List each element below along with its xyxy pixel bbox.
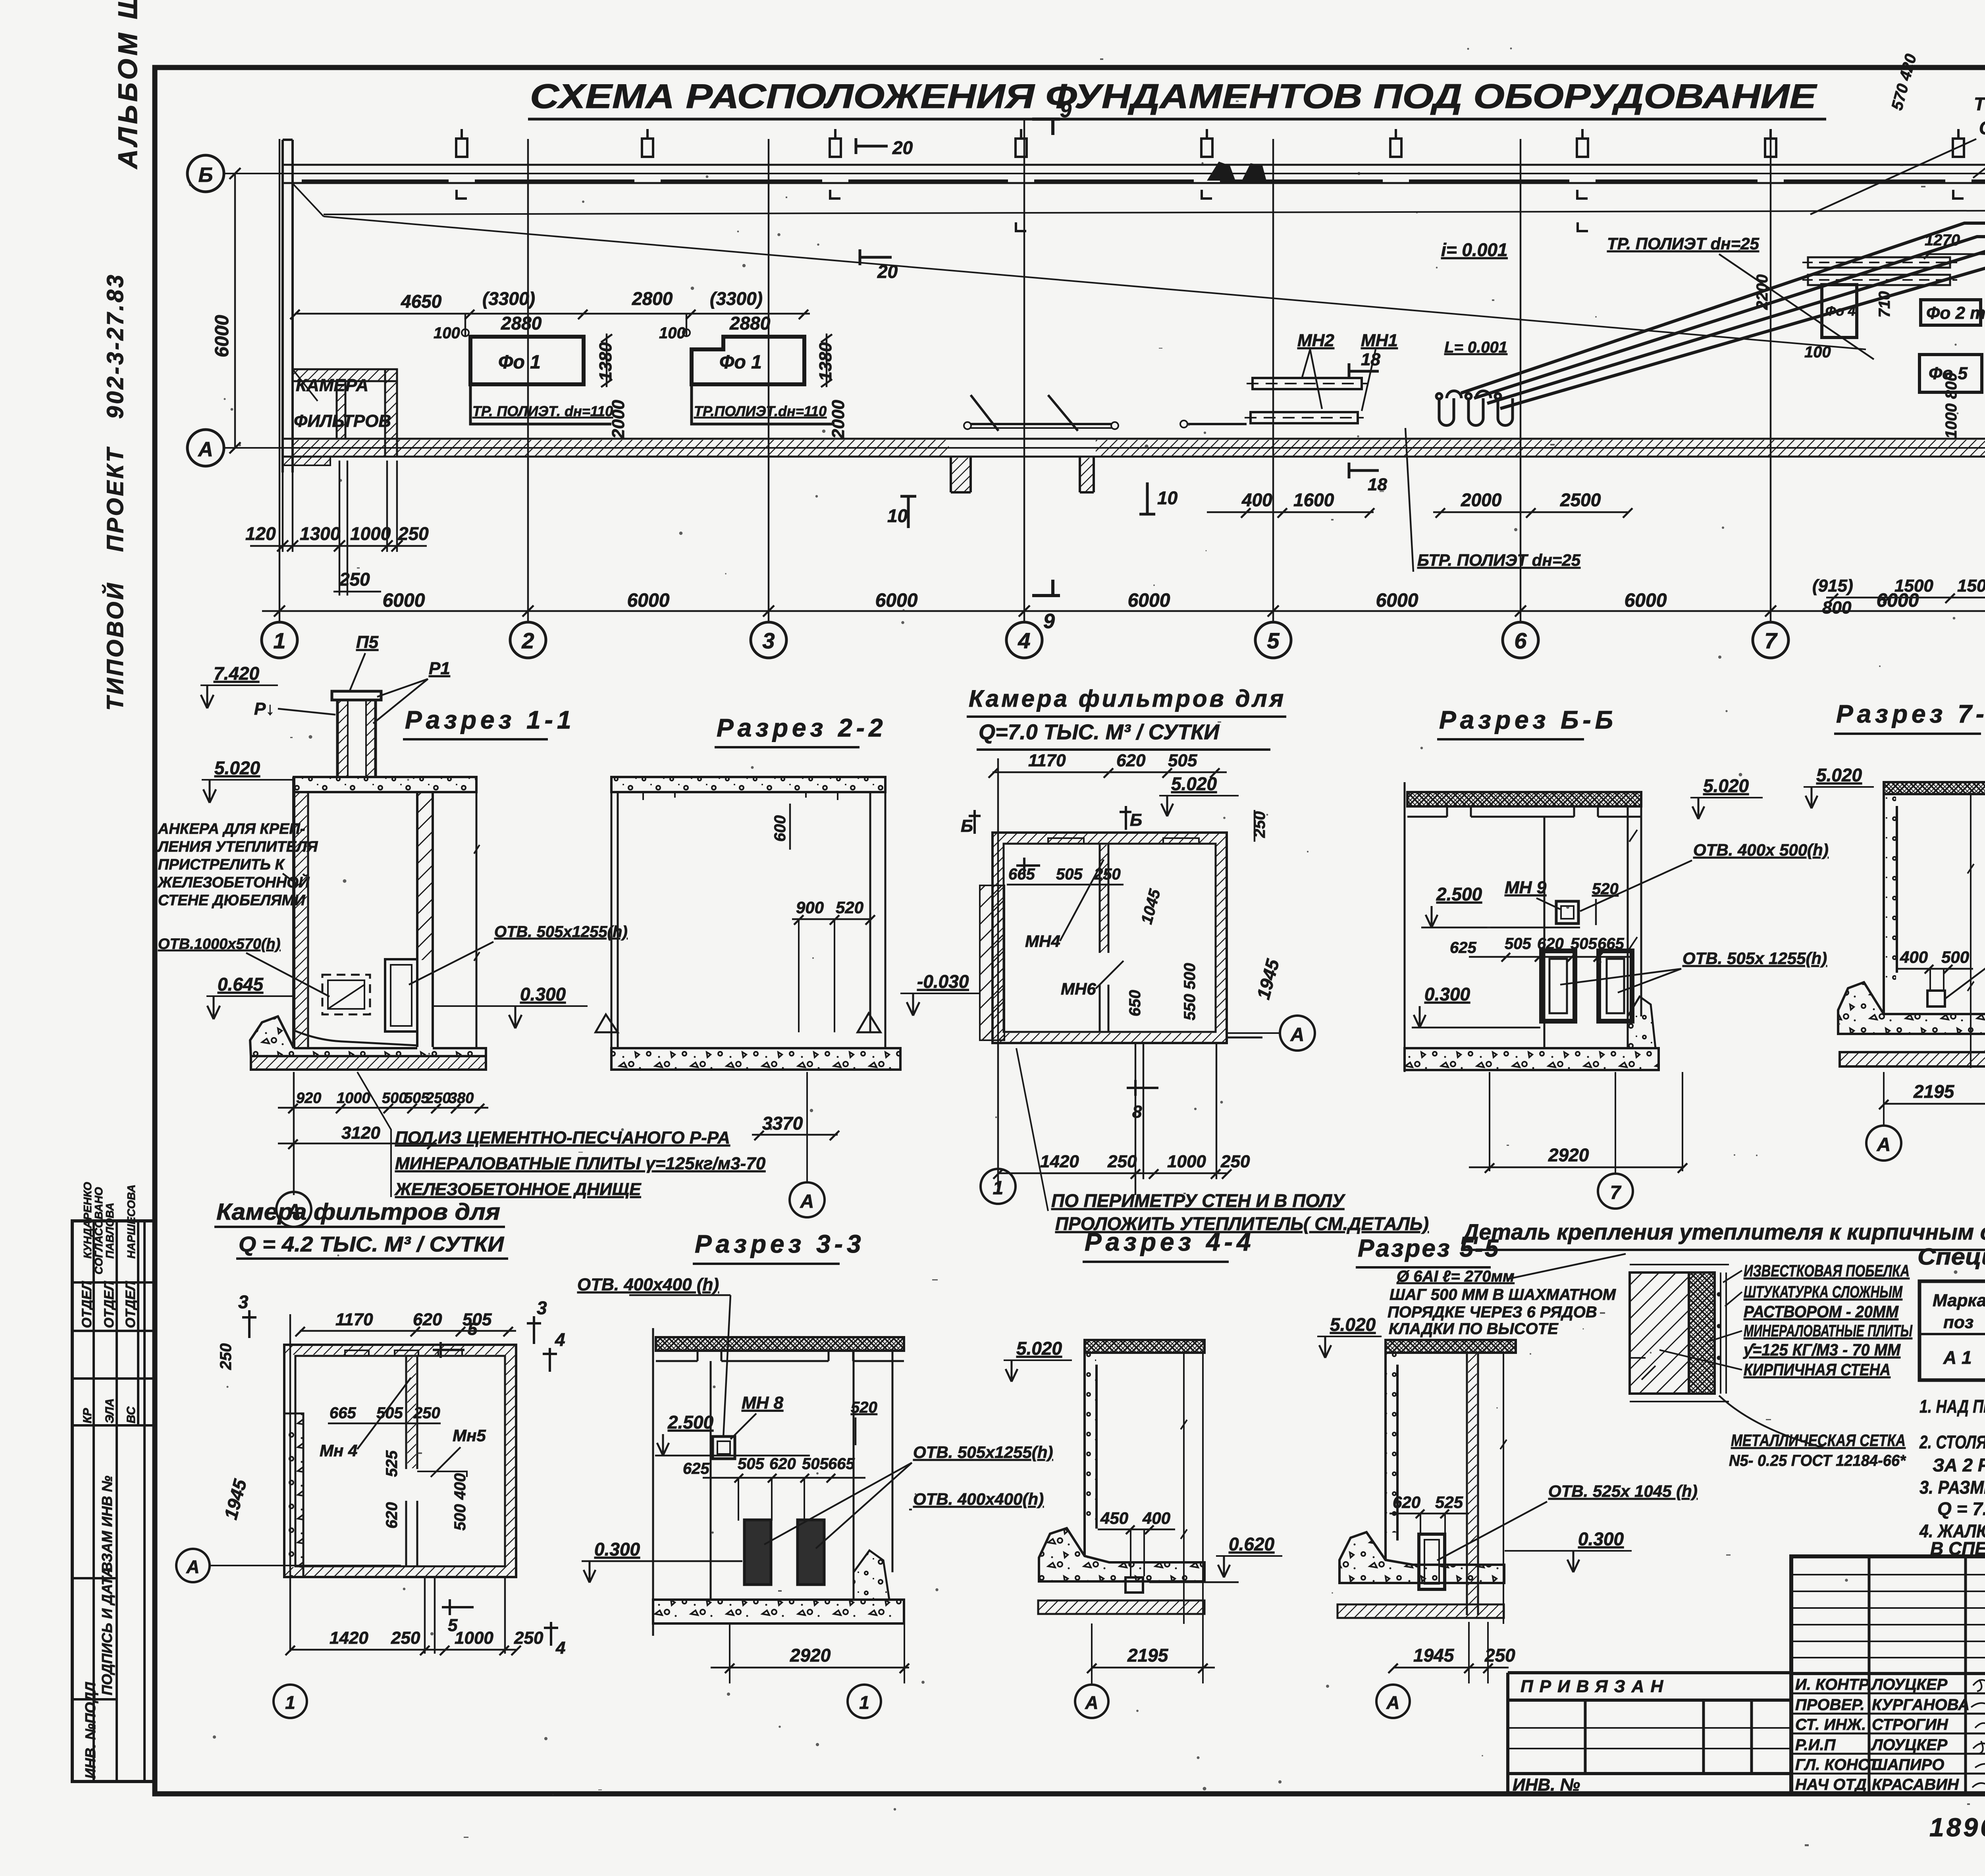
svg-text:А: А	[800, 1191, 814, 1212]
svg-text:1000 800: 1000 800	[1943, 372, 1960, 439]
svg-text:100: 100	[1804, 343, 1831, 361]
svg-text:6000: 6000	[212, 315, 233, 357]
svg-text:А 1: А 1	[1943, 1347, 1972, 1368]
spec table grid	[1919, 1281, 1985, 1380]
svg-text:1300: 1300	[300, 523, 341, 544]
svg-text:1000: 1000	[337, 1090, 370, 1107]
left vertical dim 6000	[229, 168, 241, 453]
svg-text:7: 7	[1610, 1182, 1622, 1203]
svg-text:2000: 2000	[1461, 490, 1502, 510]
svg-text:1270: 1270	[1925, 231, 1960, 249]
section mark 9-9 top and bottom	[1032, 99, 1072, 633]
svg-text:20: 20	[877, 261, 898, 282]
svg-text:ВЗАМ ИНВ №: ВЗАМ ИНВ №	[99, 1476, 115, 1572]
axis А камера7	[1227, 1016, 1315, 1051]
Разрез 4-4 drawing	[1038, 1340, 1204, 1624]
svg-text:6000: 6000	[1625, 590, 1667, 611]
svg-text:Б: Б	[198, 164, 213, 187]
Разрез 5-5 drawing	[1337, 1340, 1516, 1624]
axis Б	[187, 155, 1985, 192]
svg-text:Мн5: Мн5	[453, 1426, 486, 1445]
axis А	[187, 430, 1985, 466]
axis circle А разрез 2-2	[790, 1072, 825, 1217]
svg-text:ОТВ. 505х 1255(h): ОТВ. 505х 1255(h)	[1682, 949, 1827, 968]
foundation Фо1 #2	[683, 329, 834, 424]
Отв 1000х570 label	[158, 936, 330, 997]
Камера фильтров 7.0 title	[967, 685, 1286, 750]
svg-text:БТР. ПОЛИЭТ dн=25: БТР. ПОЛИЭТ dн=25	[1417, 551, 1581, 569]
slope labels	[1441, 234, 1874, 359]
svg-text:ЖЕЛЕЗОБЕТОННОЕ ДНИЩЕ: ЖЕЛЕЗОБЕТОННОЕ ДНИЩЕ	[394, 1180, 642, 1199]
svg-text:ПРИВЯЗАН: ПРИВЯЗАН	[1521, 1677, 1669, 1696]
foundation Фо4	[1822, 285, 1857, 337]
Разрез 6-6 levels and dims	[1412, 884, 1687, 1173]
svg-text:МИНЕРАЛОВАТНЫЕ ПЛИТЫ: МИНЕРАЛОВАТНЫЕ ПЛИТЫ	[1744, 1321, 1913, 1340]
svg-text:Фо 2 т: Фо 2 т	[1926, 303, 1985, 323]
svg-text:ОТДЕЛ: ОТДЕЛ	[102, 1281, 117, 1328]
svg-text:0.300: 0.300	[520, 984, 566, 1005]
опора text	[1974, 70, 1985, 138]
камера 4.2 labels	[220, 1378, 486, 1531]
камера 7.0 bottom dims	[993, 1044, 1231, 1195]
svg-text:ЛЕНИЯ УТЕПЛИТЕЛЯ: ЛЕНИЯ УТЕПЛИТЕЛЯ	[157, 839, 318, 855]
svg-text:2: 2	[521, 628, 534, 653]
signature squiggles	[1971, 1679, 1985, 1789]
svg-text:505: 505	[802, 1455, 829, 1473]
svg-text:А: А	[1386, 1692, 1399, 1713]
level 5.020 right of 6-6	[1690, 775, 1763, 819]
svg-text:9: 9	[1060, 99, 1072, 122]
svg-text:120: 120	[245, 523, 276, 544]
svg-text:Разрез 1-1: Разрез 1-1	[405, 706, 575, 734]
Камера 4.2 plan box	[284, 1345, 516, 1577]
svg-text:НАРШЕСОВА: НАРШЕСОВА	[125, 1184, 137, 1259]
svg-text:ШТУКАТУРКА СЛОЖНЫМ: ШТУКАТУРКА СЛОЖНЫМ	[1744, 1282, 1903, 1301]
svg-text:505: 505	[1168, 751, 1197, 770]
svg-text:10: 10	[887, 505, 908, 526]
Разрез 7-7 drawing	[1838, 782, 1985, 1068]
svg-text:18: 18	[1361, 350, 1380, 369]
svg-text:3. РАЗМЕРЫ В СКОБКАХ ДАНЫ: 3. РАЗМЕРЫ В СКОБКАХ ДАНЫ ДЛЯ ПРОИЗВОДИТ…	[1919, 1477, 1985, 1498]
svg-text:800: 800	[1822, 598, 1852, 617]
svg-text:1945: 1945	[1413, 1645, 1455, 1666]
svg-text:0.300: 0.300	[594, 1539, 640, 1560]
svg-text:250: 250	[398, 523, 429, 544]
svg-text:1: 1	[273, 628, 285, 653]
пол из цементно... notes	[394, 1128, 766, 1199]
grid circles 1-10	[262, 622, 1985, 658]
foundation Фо2т	[1921, 300, 1985, 325]
svg-text:650: 650	[1126, 990, 1144, 1016]
level 5.020 (разрез 1-1)	[202, 758, 294, 803]
svg-text:Мн 4: Мн 4	[320, 1441, 357, 1460]
Отв 400х400 label top	[577, 1275, 730, 1437]
svg-text:5.020: 5.020	[1816, 765, 1862, 785]
svg-text:5: 5	[1267, 628, 1280, 653]
svg-text:ОТВ. 400х400(h): ОТВ. 400х400(h)	[913, 1490, 1044, 1508]
svg-text:0.645: 0.645	[218, 974, 264, 995]
svg-text:Б: Б	[1130, 810, 1142, 830]
svg-text:250: 250	[1484, 1645, 1515, 1666]
svg-text:(3300): (3300)	[482, 288, 535, 309]
Разрез 4-4 dims	[1087, 1509, 1282, 1683]
level 5.020 (7-7)	[1804, 765, 1874, 808]
svg-text:100: 100	[659, 324, 686, 342]
svg-text:620: 620	[413, 1310, 442, 1329]
Разрез 1-1 title	[403, 706, 575, 739]
level 5.020 (5-5)	[1317, 1314, 1382, 1358]
svg-text:П5: П5	[356, 632, 379, 652]
svg-text:520: 520	[851, 1399, 877, 1416]
svg-text:7: 7	[1764, 628, 1778, 653]
отв labels разрез 6-6	[1560, 841, 1829, 993]
section marks 20	[856, 137, 913, 282]
svg-text:5.020: 5.020	[1171, 773, 1217, 794]
svg-text:2195: 2195	[1913, 1081, 1955, 1102]
svg-text:550 500: 550 500	[1181, 963, 1199, 1020]
Разрез 1-1 footing	[250, 1016, 486, 1070]
svg-text:6000: 6000	[875, 590, 918, 611]
svg-text:ПРОЕКТ: ПРОЕКТ	[102, 446, 128, 552]
svg-text:620: 620	[1537, 935, 1564, 952]
svg-text:5.020: 5.020	[1016, 1338, 1062, 1359]
svg-text:Разрез 3-3: Разрез 3-3	[695, 1230, 865, 1258]
svg-text:А: А	[186, 1556, 199, 1577]
svg-text:ИНВ. №ПОДЛ: ИНВ. №ПОДЛ	[82, 1681, 98, 1779]
3 section marks	[217, 1292, 547, 1370]
svg-text:250: 250	[339, 569, 370, 590]
svg-text:665: 665	[828, 1455, 855, 1473]
dims 400 1600 18 / 2000 2500	[1207, 508, 1632, 518]
металлическая сетка	[1729, 1431, 1906, 1469]
svg-text:ОТВ. 400х 500(h): ОТВ. 400х 500(h)	[1693, 841, 1829, 859]
level -0.030	[900, 971, 981, 1016]
svg-text:505: 505	[1571, 935, 1597, 952]
svg-text:1. НАД ПРОЕМАМИ В КИРПИЧНЫХ: 1. НАД ПРОЕМАМИ В КИРПИЧНЫХ СТЕНАХ ВЫПОЛ…	[1919, 1396, 1985, 1417]
Разрез 3-3 title	[693, 1230, 865, 1264]
Привязан table	[1508, 1673, 1791, 1794]
svg-text:ОТВ. 505х1255(h): ОТВ. 505х1255(h)	[913, 1443, 1053, 1461]
Разрез 1-1 chimney	[332, 691, 381, 777]
level 5.020 (4-4)	[1004, 1338, 1072, 1382]
svg-text:ФИЛЬТРОВ: ФИЛЬТРОВ	[294, 411, 391, 431]
svg-text:2200: 2200	[1754, 274, 1771, 310]
Деталь drawing	[1630, 1265, 1729, 1402]
svg-text:6000: 6000	[1376, 590, 1418, 611]
svg-text:1: 1	[859, 1692, 869, 1713]
svg-text:250: 250	[391, 1628, 420, 1648]
svg-text:250: 250	[1220, 1152, 1250, 1171]
left end wall	[283, 140, 293, 472]
svg-text:КЛАДКИ ПО ВЫСОТЕ: КЛАДКИ ПО ВЫСОТЕ	[1389, 1320, 1559, 1338]
Отв 505х1255 label	[409, 923, 628, 985]
Разрез 7-7 title	[1834, 700, 1985, 734]
svg-text:6000: 6000	[383, 590, 425, 611]
svg-text:2920: 2920	[790, 1645, 831, 1666]
svg-text:(3300): (3300)	[710, 288, 763, 309]
svg-text:А: А	[1290, 1024, 1305, 1045]
svg-text:902-3-27.83: 902-3-27.83	[102, 273, 128, 419]
svg-text:КАМЕРА: КАМЕРА	[296, 376, 368, 395]
6тр полиэт label	[1405, 428, 1581, 572]
svg-text:620: 620	[1393, 1493, 1420, 1512]
svg-text:ТИПОВОЙ: ТИПОВОЙ	[102, 581, 128, 711]
svg-text:625: 625	[1450, 939, 1476, 956]
svg-text:9: 9	[1043, 610, 1055, 633]
Разрез 2-2 dims	[752, 804, 875, 1140]
svg-text:4: 4	[555, 1329, 565, 1350]
foundation Фо1 #1	[462, 329, 613, 424]
камера 4.2 bottom dims	[285, 1578, 521, 1655]
svg-text:ЛОУЦКЕР: ЛОУЦКЕР	[1871, 1676, 1948, 1693]
svg-text:4650: 4650	[401, 291, 442, 312]
svg-text:ШАГ 500 ММ В ШАХМАТНОМ: ШАГ 500 ММ В ШАХМАТНОМ	[1389, 1286, 1617, 1303]
svg-text:250: 250	[413, 1404, 440, 1422]
svg-text:Спецификация элементов заполн: Спецификация элементов заполнения проемо…	[1918, 1244, 1985, 1270]
svg-text:ИЗВЕСТКОВАЯ ПОБЕЛКА: ИЗВЕСТКОВАЯ ПОБЕЛКА	[1744, 1261, 1910, 1280]
svg-text:1500: 1500	[1894, 576, 1933, 596]
svg-text:505: 505	[1505, 935, 1531, 952]
svg-text:2. СТОЛЯРНЫЕ ИЗДЕЛИЯ ОКРАШИВ: 2. СТОЛЯРНЫЕ ИЗДЕЛИЯ ОКРАШИВАЮТСЯ. МАСЛЯ…	[1919, 1432, 1985, 1452]
svg-text:Р1: Р1	[429, 659, 450, 678]
svg-text:-0.030: -0.030	[917, 971, 969, 992]
svg-text:900: 900	[796, 898, 824, 917]
svg-text:4: 4	[1018, 628, 1030, 653]
svg-text:КР: КР	[81, 1408, 94, 1423]
svg-text:СТ. ИНЖ.: СТ. ИНЖ.	[1795, 1716, 1866, 1733]
Разрез 1-1 dims below	[278, 1072, 488, 1195]
svg-text:18969-02 11: 18969-02 11	[1929, 1812, 1985, 1842]
svg-text:ОТДЕЛ: ОТДЕЛ	[123, 1281, 138, 1328]
svg-text:ГЛ. КОНСТ.: ГЛ. КОНСТ.	[1795, 1756, 1882, 1774]
svg-text:3370: 3370	[762, 1113, 803, 1134]
svg-text:2195: 2195	[1127, 1645, 1169, 1666]
svg-text:Фо 1: Фо 1	[719, 352, 762, 373]
svg-text:710: 710	[1876, 291, 1893, 318]
svg-text:L= 0.001: L= 0.001	[1444, 339, 1507, 356]
Разрез 7-7 dims	[1879, 914, 1985, 1126]
svg-text:Деталь крепления утеплителя: Деталь крепления утеплителя к кирпичным …	[1461, 1219, 1985, 1244]
axis А (4-4)	[1075, 1685, 1108, 1718]
Разрез 6-6 small insert МН9	[1505, 878, 1619, 925]
svg-text:20: 20	[892, 137, 913, 158]
svg-text:ПОЛ ИЗ ЦЕМЕНТНО-ПЕСЧАНОГО Р-РА: ПОЛ ИЗ ЦЕМЕНТНО-ПЕСЧАНОГО Р-РА	[395, 1128, 730, 1147]
svg-text:0.300: 0.300	[1578, 1529, 1624, 1549]
отв labels разрез 3-3	[764, 1443, 1053, 1548]
svg-text:2.500: 2.500	[667, 1412, 714, 1433]
svg-text:МН4: МН4	[1025, 932, 1060, 951]
svg-text:620: 620	[769, 1455, 796, 1473]
svg-text:620: 620	[383, 1502, 401, 1529]
svg-text:665: 665	[330, 1404, 356, 1422]
Разрез 1-1 main box	[294, 777, 480, 1048]
П5 Р1 labels	[254, 632, 450, 723]
svg-text:500: 500	[382, 1090, 407, 1107]
svg-text:ОТДЕЛ: ОТДЕЛ	[79, 1281, 94, 1328]
svg-text:1170: 1170	[335, 1310, 373, 1329]
svg-text:1420: 1420	[330, 1628, 368, 1648]
svg-text:МН2: МН2	[1297, 331, 1334, 350]
bottom wall of gallery	[283, 439, 1985, 457]
svg-text:2000: 2000	[829, 400, 848, 439]
svg-text:ПО ПЕРИМЕТРУ СТЕН И В ПОЛУ: ПО ПЕРИМЕТРУ СТЕН И В ПОЛУ	[1051, 1190, 1346, 1211]
svg-text:(915): (915)	[1812, 576, 1853, 596]
spec table data row	[1943, 1347, 1985, 1368]
rotated dims right part	[1754, 204, 1985, 439]
svg-text:625: 625	[683, 1460, 709, 1477]
left stamp boxes column	[72, 1221, 154, 1782]
bottom wall hatch strip	[294, 440, 1985, 456]
svg-text:5: 5	[448, 1616, 458, 1635]
svg-text:ОТВ.1000х570(h): ОТВ.1000х570(h)	[158, 936, 280, 952]
svg-text:ПРИСТРЕЛИТЬ К: ПРИСТРЕЛИТЬ К	[158, 856, 285, 873]
svg-text:Ø 6АI ℓ= 270мм: Ø 6АI ℓ= 270мм	[1397, 1268, 1515, 1285]
section marks 10	[887, 482, 1178, 528]
svg-text:МН 9: МН 9	[1505, 878, 1547, 897]
top right dims	[1888, 52, 1985, 249]
Деталь labels	[1743, 1261, 1913, 1379]
svg-text:Разрез 7-7: Разрез 7-7	[1836, 700, 1985, 728]
svg-text:250: 250	[217, 1343, 235, 1370]
axis 7 circle	[1598, 1072, 1633, 1209]
svg-text:2800: 2800	[632, 288, 673, 309]
svg-text:ПОРЯДКЕ ЧЕРЕЗ 6 РЯДОВ: ПОРЯДКЕ ЧЕРЕЗ 6 РЯДОВ	[1388, 1303, 1597, 1321]
svg-text:3: 3	[537, 1298, 547, 1318]
svg-text:СХЕМА РАСПОЛОЖЕНИЯ ФУНДАМЕНТ: СХЕМА РАСПОЛОЖЕНИЯ ФУНДАМЕНТОВ ПОД ОБОРУ…	[530, 77, 1817, 116]
spec table header texts	[1933, 1291, 1985, 1332]
svg-text:Разрез 2-2: Разрез 2-2	[717, 713, 887, 742]
svg-text:2.500: 2.500	[1436, 884, 1482, 904]
svg-text:500 400: 500 400	[451, 1473, 469, 1531]
svg-text:поз: поз	[1943, 1313, 1973, 1332]
svg-text:ƴ=125 КГ/М3 - 70 ММ: ƴ=125 КГ/М3 - 70 ММ	[1743, 1340, 1901, 1359]
svg-text:1380: 1380	[816, 342, 835, 381]
Камера 7.0 dims above	[989, 758, 1227, 1187]
svg-text:СТРОГИН: СТРОГИН	[1872, 1716, 1948, 1733]
Разрез 5-5 title	[1356, 1235, 1500, 1267]
svg-text:Камера фильтров для: Камера фильтров для	[969, 685, 1286, 712]
svg-text:НАЧ ОТД: НАЧ ОТД	[1795, 1776, 1867, 1793]
svg-text:Б: Б	[961, 816, 973, 836]
Камера 7.0 plan box	[980, 833, 1227, 1043]
svg-text:250: 250	[514, 1628, 543, 1648]
svg-text:505: 505	[1056, 866, 1083, 883]
level 0.645	[206, 974, 294, 1019]
svg-text:N5- 0.25 ГОСТ 12184-66*: N5- 0.25 ГОСТ 12184-66*	[1729, 1452, 1906, 1469]
bay dimension line 6000s	[262, 605, 1985, 617]
long support line and slope line	[293, 183, 1985, 349]
svg-text:Q=7.0 ТЫС. М³ / СУТКИ: Q=7.0 ТЫС. М³ / СУТКИ	[979, 720, 1220, 744]
4 mark top	[543, 1329, 565, 1372]
svg-text:665: 665	[1598, 935, 1624, 952]
svg-text:Фо 1: Фо 1	[498, 352, 541, 373]
svg-text:500: 500	[1941, 948, 1969, 966]
pipe support posts on top wall	[456, 129, 1985, 157]
svg-text:600: 600	[771, 815, 789, 842]
Разрез 3-3 drawing	[653, 1328, 904, 1636]
support bars right	[1802, 257, 1957, 285]
svg-text:Марка: Марка	[1933, 1291, 1985, 1310]
svg-text:525: 525	[383, 1450, 401, 1477]
8 section marks	[1016, 858, 1158, 1122]
по периметру note (камера 7)	[1051, 1190, 1429, 1234]
анкера note	[157, 821, 318, 909]
level 5.020 камера	[1159, 773, 1239, 816]
svg-text:СМ. ЛИСТ. 10: СМ. ЛИСТ. 10	[1979, 118, 1985, 138]
камера 7.0 inner labels	[1007, 810, 1284, 1020]
svg-text:250: 250	[1107, 1152, 1137, 1171]
Разрез 2-2 drawing	[595, 777, 900, 1070]
svg-text:3120: 3120	[341, 1123, 380, 1143]
grid column lines 1-10	[279, 119, 1985, 622]
dims above Фо1	[290, 310, 810, 335]
main title	[528, 77, 1826, 119]
dims below right	[1826, 544, 1985, 603]
svg-text:7.420: 7.420	[214, 663, 260, 684]
svg-text:А: А	[197, 438, 213, 461]
svg-text:КУРГАНОВА: КУРГАНОВА	[1872, 1696, 1970, 1714]
Разрез 6-6 title	[1437, 706, 1617, 739]
svg-text:1170: 1170	[1028, 751, 1066, 770]
svg-text:1420: 1420	[1040, 1152, 1079, 1171]
pipe manifold loops	[1436, 391, 1513, 426]
axis 1 камера7	[981, 1169, 1016, 1204]
svg-text:Р.И.П: Р.И.П	[1795, 1736, 1836, 1754]
svg-text:505: 505	[738, 1455, 764, 1473]
svg-text:6: 6	[1514, 628, 1527, 653]
svg-text:3: 3	[238, 1292, 249, 1312]
svg-text:ТЕХНОЛОГИЧЕСКИХ ТРУБОПРОВОДОВ: ТЕХНОЛОГИЧЕСКИХ ТРУБОПРОВОДОВ	[1974, 94, 1985, 114]
middle pipe supports МН	[964, 331, 1398, 429]
signature rows	[1795, 1676, 1970, 1793]
б section marks	[961, 806, 1142, 836]
svg-text:4: 4	[555, 1638, 565, 1658]
svg-text:ЗА 2 РАЗА.: ЗА 2 РАЗА.	[1933, 1455, 1985, 1475]
svg-text:ИНВ. №: ИНВ. №	[1513, 1775, 1580, 1795]
svg-text:18: 18	[1368, 475, 1387, 494]
pipe bundle diagonals	[1461, 223, 1985, 409]
svg-text:i= 0.001: i= 0.001	[1441, 239, 1508, 260]
18 marks	[1349, 350, 1387, 494]
hook marks under wall at supports	[457, 190, 1964, 231]
axis 1 камера 4.2	[274, 1685, 307, 1718]
left margin rotated text: Типовой проект 902-3-27.83 / Альбом III	[102, 0, 143, 711]
Разрез 5-5 dims	[1388, 1482, 1698, 1683]
svg-text:1380: 1380	[596, 342, 615, 381]
svg-text:Р↓: Р↓	[254, 699, 274, 719]
svg-text:ОТВ. 525х 1045 (h): ОТВ. 525х 1045 (h)	[1548, 1482, 1698, 1500]
svg-text:250: 250	[1251, 811, 1268, 838]
top wall of gallery	[283, 165, 1985, 183]
svg-text:ПРОВЕР.: ПРОВЕР.	[1795, 1696, 1865, 1714]
passage niche between col 4 and 5	[951, 395, 1094, 492]
svg-text:1: 1	[993, 1178, 1004, 1199]
камера фильтров room	[283, 369, 397, 465]
svg-text:665: 665	[1008, 866, 1035, 883]
svg-text:400: 400	[1241, 490, 1272, 510]
svg-text:2880: 2880	[729, 313, 771, 334]
Камера 4.2 dims above	[290, 1314, 516, 1652]
svg-text:1600: 1600	[1293, 490, 1334, 510]
svg-text:РАСТВОРОМ - 20ММ: РАСТВОРОМ - 20ММ	[1744, 1302, 1899, 1321]
svg-text:КУНДАРЕНКО: КУНДАРЕНКО	[81, 1182, 94, 1259]
svg-text:МН6: МН6	[1061, 979, 1096, 998]
axis circle А разрез 1-1	[276, 1192, 311, 1227]
svg-text:Q = 4.2 ТЫС. М³ / СУТКИ: Q = 4.2 ТЫС. М³ / СУТКИ	[239, 1232, 504, 1256]
axis А (5-5)	[1376, 1685, 1410, 1718]
svg-text:Разрез 4-4: Разрез 4-4	[1085, 1228, 1255, 1256]
vertical dims 1380 2000	[596, 342, 848, 439]
